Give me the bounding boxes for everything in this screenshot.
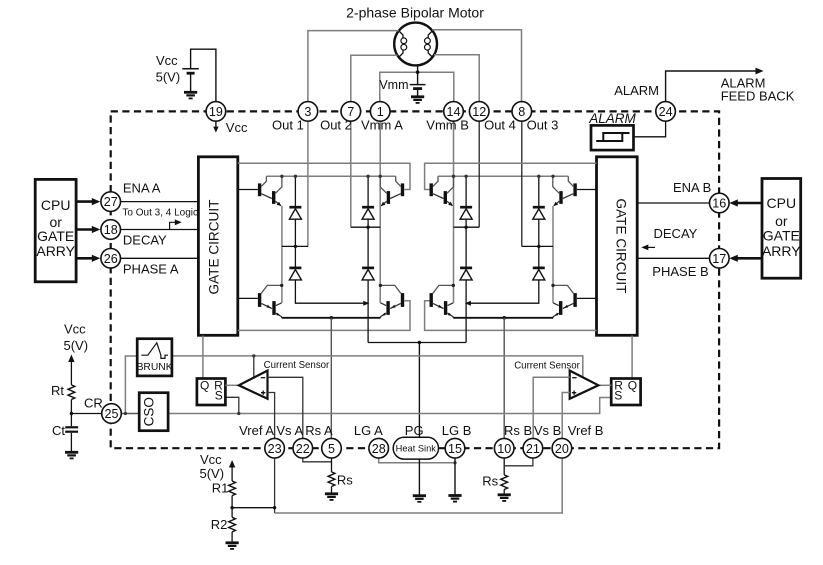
wire comparator B minus input to pin 21 xyxy=(533,377,570,438)
wire divider node to pin 23 xyxy=(232,507,275,509)
bridge B right emitter column xyxy=(552,206,554,303)
svg-text:Out 4: Out 4 xyxy=(484,117,516,132)
CPU box right xyxy=(762,179,801,279)
wire R2 to ground xyxy=(231,532,233,542)
wire pin 18 to gate A xyxy=(121,229,199,231)
wire pin 28 to LG B ground trace xyxy=(379,458,455,463)
wire R1 to divider node xyxy=(231,496,233,518)
svg-text:14: 14 xyxy=(446,105,460,119)
svg-text:LG B: LG B xyxy=(442,423,472,438)
wire pin 16 to gate B xyxy=(637,202,709,204)
pin 19 xyxy=(206,102,226,122)
svg-text:Out 1: Out 1 xyxy=(272,117,304,132)
arrow Vcc into IC below pin 19 xyxy=(215,121,217,129)
svg-text:PG: PG xyxy=(405,423,424,438)
wire Vmm rail pins 1 and 14 xyxy=(380,72,454,101)
pin 1 xyxy=(370,102,390,122)
svg-text:ENA A: ENA A xyxy=(123,180,161,195)
decay edge arrow A xyxy=(170,222,177,229)
pin 12 xyxy=(469,102,489,122)
svg-text:CPU: CPU xyxy=(767,195,797,211)
pin 17 xyxy=(710,248,730,268)
base wire gate A to Q1 xyxy=(238,189,258,191)
svg-text:17: 17 xyxy=(712,252,726,266)
pin 27 xyxy=(101,192,121,212)
wire PG down to heat sink xyxy=(418,343,420,438)
svg-text:DECAY: DECAY xyxy=(123,233,167,248)
svg-text:Rs: Rs xyxy=(337,473,353,488)
arrow up to Vcc (Rt) xyxy=(70,360,72,385)
svg-text:ALARM: ALARM xyxy=(614,83,659,98)
junction arrow at B diode join xyxy=(465,301,471,306)
node bar A left (Out 1) xyxy=(282,245,308,247)
svg-text:FEED BACK: FEED BACK xyxy=(721,89,795,104)
arrow CPU to pin 26 xyxy=(76,257,93,260)
pin 15 xyxy=(445,438,465,458)
pin 28 xyxy=(369,438,389,458)
wire heat sink to ground xyxy=(418,459,420,495)
pin 8 xyxy=(512,102,532,122)
motor M1 xyxy=(394,23,437,66)
svg-text:S: S xyxy=(215,389,223,403)
svg-text:DECAY: DECAY xyxy=(654,226,698,241)
svg-text:Current Sensor: Current Sensor xyxy=(264,360,330,371)
pin 20 xyxy=(552,438,572,458)
wire comparator A plus input to pin 23 xyxy=(268,393,275,439)
svg-text:23: 23 xyxy=(268,442,282,456)
wire motor to pin 3 (Out 1) xyxy=(308,31,399,102)
wire pin 23 down to divider xyxy=(274,458,276,513)
wire OSC output line to both flip-flop S inputs xyxy=(168,398,611,414)
comparator B (current sensor B) xyxy=(570,371,599,399)
wire pin 7 into bridge A right node xyxy=(350,121,352,227)
wire S input A xyxy=(225,397,238,413)
svg-text:Q: Q xyxy=(200,378,209,392)
arrow CPU to pin 27 xyxy=(76,200,93,203)
arrow CPU to pin 17 xyxy=(736,257,762,260)
pin 14 xyxy=(444,102,464,122)
gate circuit A box U1 xyxy=(198,157,237,335)
wire CR line pin 25 to OSC xyxy=(121,413,139,415)
ground for Ct xyxy=(65,452,78,458)
pin 3 xyxy=(298,102,318,122)
svg-text:8: 8 xyxy=(518,105,525,119)
wire pin 21 to Rs B top xyxy=(504,458,533,466)
pin 22 xyxy=(293,438,313,458)
comparator A (current sensor A) xyxy=(239,371,268,399)
svg-text:19: 19 xyxy=(209,105,223,119)
wire tap A to pin 5 xyxy=(330,316,334,320)
svg-text:3: 3 xyxy=(304,105,311,119)
wire pin 27 to gate A xyxy=(121,201,199,203)
wire pin 26 to gate A xyxy=(121,257,199,259)
svg-text:25: 25 xyxy=(104,407,118,421)
svg-text:Vcc: Vcc xyxy=(64,322,86,337)
ground for R2 xyxy=(226,543,239,549)
svg-text:GATE: GATE xyxy=(763,228,800,244)
bottom rail B xyxy=(453,317,553,319)
svg-text:ENA B: ENA B xyxy=(673,180,711,195)
svg-text:R2: R2 xyxy=(211,517,228,532)
svg-text:Vs B: Vs B xyxy=(534,423,561,438)
alarm hysteresis box U3 xyxy=(591,125,634,150)
wire motor bottom to Vmm junction xyxy=(417,66,419,73)
svg-text:CSO: CSO xyxy=(142,397,157,426)
bridge A left emitter column xyxy=(281,206,283,303)
svg-text:Q: Q xyxy=(628,378,637,392)
svg-text:PHASE B: PHASE B xyxy=(652,264,708,279)
diode D2 column (A right) xyxy=(367,176,369,342)
pin 25 xyxy=(102,404,122,424)
wire motor to pin 7 (Out 2) xyxy=(351,55,398,101)
wire blanking line from BRUNK to both comparators xyxy=(172,356,583,378)
base wire gate A to Q3 xyxy=(238,297,258,299)
diode D4 column (B right) xyxy=(466,176,539,303)
ground for Rs A xyxy=(325,494,338,500)
svg-text:Vcc: Vcc xyxy=(156,53,178,68)
ground for Rs B xyxy=(498,495,511,501)
bridge A top rail (Vmm A) xyxy=(266,175,395,177)
wire blanking drop to comparator A xyxy=(253,356,255,378)
pin 16 xyxy=(710,193,730,213)
wire motor to pin 8 (Out 3) xyxy=(432,30,521,102)
svg-text:28: 28 xyxy=(372,442,386,456)
base wire gate B to Q6 xyxy=(577,189,597,191)
wire pin 3 into bridge A left node xyxy=(307,121,309,246)
flip-flop B box (R Q S) xyxy=(611,379,640,406)
wire pin 10 down xyxy=(503,458,505,475)
svg-text:21: 21 xyxy=(526,442,540,456)
svg-text:16: 16 xyxy=(712,197,726,211)
transistor Q3 (A bottom-left darlington) xyxy=(260,284,284,318)
wire L2B gate B to Q5 base xyxy=(425,163,597,189)
wire comparator B plus input to pin 20 xyxy=(562,393,570,439)
svg-text:1: 1 xyxy=(377,105,384,119)
arrow CPU to pin 18 xyxy=(76,228,93,231)
pin 21 xyxy=(523,438,543,458)
wire comparator A minus input to pin 22 xyxy=(268,377,303,438)
wire L4B gate B to Q7 base xyxy=(425,301,597,331)
wire pin 14 through rail B down xyxy=(453,121,455,302)
svg-text:R1: R1 xyxy=(212,481,229,496)
rail junction dots xyxy=(280,175,555,178)
svg-text:Vcc: Vcc xyxy=(200,452,222,467)
transistor Q6 (B top-right darlington) xyxy=(553,176,575,206)
wire tap B to pin 10 xyxy=(502,316,506,320)
svg-text:12: 12 xyxy=(472,105,486,119)
wire L3A gate A to Q4 base xyxy=(238,301,410,331)
transistor Q4 (A bottom-right darlington) xyxy=(379,284,403,318)
svg-text:Rs: Rs xyxy=(482,474,498,489)
node bar A right (Out 2) xyxy=(351,226,380,228)
svg-text:5(V): 5(V) xyxy=(156,70,181,85)
ground for heat sink xyxy=(413,496,426,502)
wire pin 17 to gate B xyxy=(637,257,709,259)
svg-text:5(V): 5(V) xyxy=(64,338,89,353)
svg-text:Heat Sink: Heat Sink xyxy=(396,444,437,454)
diode D3 column (B left) xyxy=(465,176,467,342)
svg-text:10: 10 xyxy=(497,442,511,456)
svg-text:To Out 3, 4 Logic: To Out 3, 4 Logic xyxy=(122,207,198,218)
svg-text:LG A: LG A xyxy=(354,423,383,438)
decay arrow B xyxy=(647,246,656,248)
svg-text:CPU: CPU xyxy=(41,197,71,213)
wire BRUNK tap riser xyxy=(125,356,137,414)
pin 24 xyxy=(656,102,676,122)
svg-text:ARRY: ARRY xyxy=(36,243,75,259)
wire pin 22 to Rs A top xyxy=(303,458,332,462)
svg-text:ALARM: ALARM xyxy=(588,111,636,126)
svg-text:GATE CIRCUIT: GATE CIRCUIT xyxy=(614,199,629,294)
wire alarm box to pin 24 xyxy=(634,121,666,137)
transistor Q8 (B bottom-right darlington) xyxy=(551,284,575,318)
bottom rail A xyxy=(282,317,381,319)
wire Rt to CR node xyxy=(70,400,72,414)
svg-text:Rt: Rt xyxy=(51,383,64,398)
resistor Rs A xyxy=(328,472,335,487)
wire Vref link to pin 20 xyxy=(275,458,563,513)
transistor Q5 (B top-left darlington) xyxy=(431,176,453,206)
svg-text:7: 7 xyxy=(347,105,354,119)
battery Vcc cell xyxy=(182,49,216,101)
node bar B right (Out 3) xyxy=(522,245,553,247)
svg-text:ARRY: ARRY xyxy=(762,243,801,259)
svg-text:Vref B: Vref B xyxy=(568,423,604,438)
node bar B left (Out 4) xyxy=(454,226,480,228)
svg-text:27: 27 xyxy=(104,195,118,209)
OSC box U5 xyxy=(139,393,168,431)
pin 26 xyxy=(101,248,121,268)
arrow CPU to pin 16 xyxy=(736,202,762,205)
svg-text:GATE CIRCUIT: GATE CIRCUIT xyxy=(207,200,222,295)
svg-text:PHASE A: PHASE A xyxy=(123,261,179,276)
transistor Q2 (A top-right darlington) xyxy=(380,176,402,206)
junction arrow at A diode join xyxy=(363,301,369,306)
svg-text:Vcc: Vcc xyxy=(226,120,248,135)
comparator B output to R xyxy=(598,384,611,386)
svg-text:2-phase Bipolar Motor: 2-phase Bipolar Motor xyxy=(346,5,484,21)
svg-text:CR: CR xyxy=(84,396,103,411)
wire Q riser B (gate B to flip-flop B) xyxy=(631,336,633,379)
wire CR node to pin 25 xyxy=(71,413,101,415)
svg-text:24: 24 xyxy=(659,105,673,119)
svg-text:Vs A: Vs A xyxy=(276,423,303,438)
svg-text:Rs A: Rs A xyxy=(305,423,333,438)
svg-text:15: 15 xyxy=(448,442,462,456)
transistor Q7 (B bottom-left darlington) xyxy=(431,284,455,318)
base wire gate B to Q8 xyxy=(577,297,597,299)
wire pin 12 into bridge B left node xyxy=(478,121,480,227)
svg-text:5: 5 xyxy=(328,442,335,456)
pin 23 xyxy=(265,438,285,458)
ground for Vmm battery xyxy=(411,97,424,103)
ground for pin 15 xyxy=(448,496,461,502)
pin 7 xyxy=(341,102,361,122)
wire PG interconnect xyxy=(368,342,466,344)
svg-text:18: 18 xyxy=(104,223,118,237)
wire L2A gate A to Q2 base xyxy=(238,163,410,189)
battery Vmm cell xyxy=(410,72,426,96)
wire pin 5 down xyxy=(331,458,333,472)
svg-text:22: 22 xyxy=(296,442,310,456)
bridge B top rail (Vmm B) xyxy=(438,175,568,177)
svg-text:S: S xyxy=(614,389,622,403)
BRUNK box U4 xyxy=(137,339,172,376)
svg-text:GATE: GATE xyxy=(37,228,74,244)
ground for Vcc battery xyxy=(184,92,197,98)
node junction dots xyxy=(294,226,541,249)
svg-text:Current Sensor: Current Sensor xyxy=(514,360,580,371)
svg-text:20: 20 xyxy=(555,442,569,456)
pin 10 xyxy=(494,438,514,458)
svg-text:Ct: Ct xyxy=(52,423,65,438)
svg-text:Out 3: Out 3 xyxy=(527,117,559,132)
CPU box left xyxy=(35,179,76,281)
svg-text:Rs B: Rs B xyxy=(504,423,532,438)
wire pin 8 into bridge B right node xyxy=(521,121,523,246)
transistor Q1 (A top-left darlington) xyxy=(260,176,282,206)
flip-flop A box (Q R S) xyxy=(197,379,226,406)
svg-text:26: 26 xyxy=(104,252,118,266)
wire Q riser A (gate A to flip-flop A) xyxy=(202,336,204,379)
wire pin 15 to ground xyxy=(454,458,456,495)
wire pin 24 alarm feedback output xyxy=(666,71,760,102)
svg-text:or: or xyxy=(775,213,788,229)
wire motor to pin 12 (Out 4) xyxy=(434,55,479,102)
svg-text:BRUNK: BRUNK xyxy=(137,362,173,373)
comparator A output to R xyxy=(225,384,238,386)
IC dashed boundary box xyxy=(111,111,719,448)
gate circuit B box U2 xyxy=(597,157,638,335)
pin 18 xyxy=(101,220,121,240)
node Vmm junction xyxy=(416,70,420,74)
diode D1 column (A left) xyxy=(295,176,368,303)
arrow up to Vcc (R1) xyxy=(231,466,233,482)
svg-text:Vmm: Vmm xyxy=(379,78,408,92)
svg-text:5(V): 5(V) xyxy=(200,466,225,481)
svg-text:Vref A: Vref A xyxy=(239,423,274,438)
heat sink pad PG xyxy=(393,437,438,459)
pin 5 xyxy=(322,438,342,458)
wire pin 1 through rail A down (Vmm A / emitter column) xyxy=(379,121,381,302)
